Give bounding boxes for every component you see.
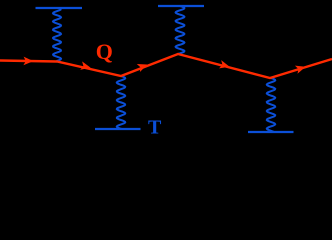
photon line P4 (wavy, vertex D to bar V4) [267,78,275,132]
source bar V2 (top-right external vertex) [158,5,204,7]
photon line P3 (wavy, vertex B to bar V3) [117,76,125,129]
photon line P1 (wavy, bar V1 to vertex A) [53,9,61,61]
source bar V3 (bottom-left external vertex) [95,128,141,130]
arrowhead 3 (segment B to C) [137,64,148,72]
svg-text:Q: Q [96,39,113,64]
fermion line (red polyline through vertices A,B,C,D) [0,54,332,78]
photon line P2 (wavy, bar V2 to vertex C) [176,6,185,54]
arrowhead 1 (incoming segment) [23,57,33,66]
source bar V1 (top-left external vertex) [36,7,83,9]
arrowhead 2 (segment A to B) [80,61,91,69]
arrowhead 4 (segment C to D) [219,60,230,68]
arrowhead 5 (outgoing segment) [295,66,306,74]
svg-text:T: T [148,117,162,137]
source bar V4 (bottom-right external vertex) [248,131,294,133]
